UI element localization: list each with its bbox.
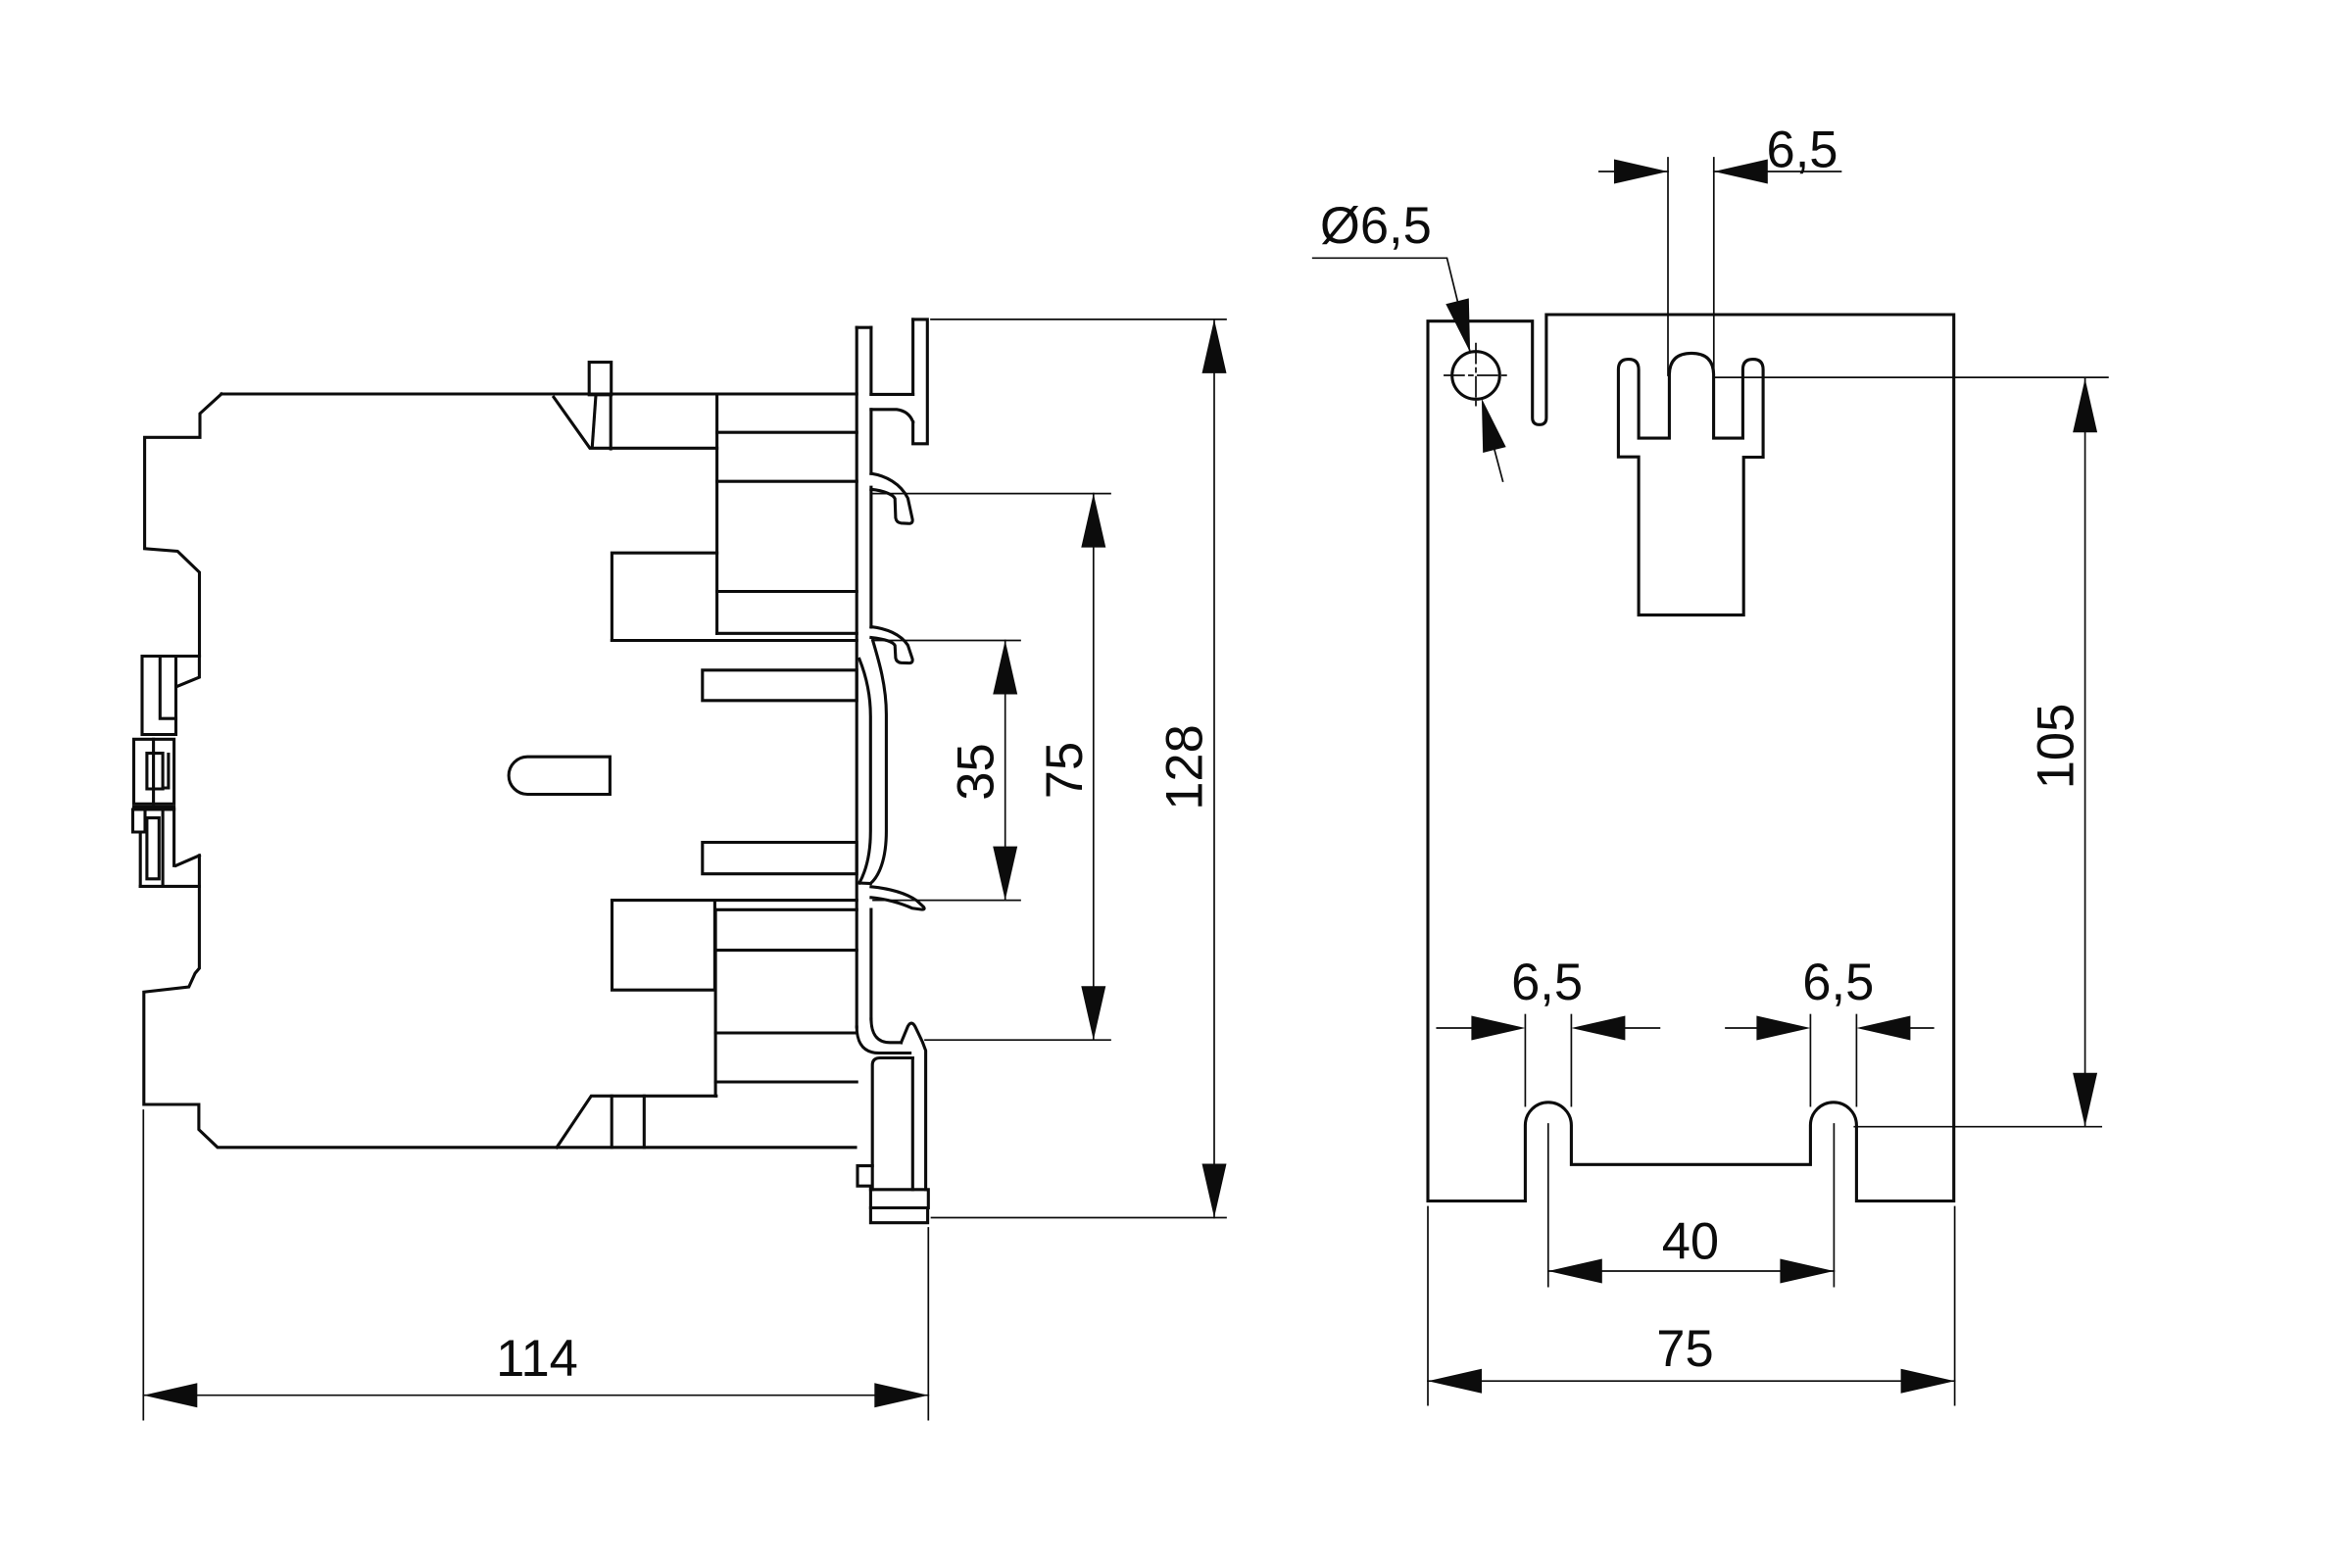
dim 128 arrow top [1202, 319, 1227, 373]
svg-text:Ø6,5: Ø6,5 [1320, 197, 1432, 255]
lower tab bar [703, 843, 857, 874]
upper terminal block line 2 [717, 480, 857, 483]
lower terminal block left edge [714, 909, 717, 1096]
DIN clip mid block inner vertical [163, 755, 169, 788]
dim 6,5 top arrow left [1614, 160, 1668, 184]
screw head [589, 363, 612, 395]
dim 75b extension right [1954, 1207, 1956, 1405]
hole leader arrow upper [1445, 298, 1470, 352]
dim 6,5 bottom-left arrow a [1471, 1016, 1525, 1041]
dim 6,5 bottom-right arrow b [1856, 1016, 1910, 1041]
lower terminal block line 2 [715, 1031, 857, 1034]
hole centerline vertical [1475, 344, 1477, 408]
dim 6,5 bottom-right extension b [1855, 1015, 1857, 1106]
dim 114 extension left [142, 1110, 144, 1420]
dim 128 extension top [931, 318, 1226, 320]
dim 6,5 top leader right [1714, 171, 1841, 172]
dim 128 line [1213, 319, 1215, 1218]
crown cutout [1618, 353, 1763, 614]
dim 6,5 top extension right [1713, 158, 1715, 438]
dim 35 extension bottom [873, 900, 1020, 902]
body top edge [221, 392, 857, 395]
foot block top [872, 1058, 912, 1190]
dim 105 arrow top [2073, 378, 2097, 432]
dim 114 arrow right [874, 1383, 928, 1407]
foot flange [870, 1190, 928, 1208]
bottom recess rib 2 [643, 1096, 646, 1148]
dim 75b line [1428, 1380, 1955, 1382]
dim 128 extension bottom [932, 1217, 1227, 1219]
dim 75 line [1093, 494, 1095, 1041]
dim 35 line [1004, 641, 1006, 901]
upper left block [612, 553, 716, 640]
leaf spring outer curve [870, 641, 886, 884]
dim 40 extension left [1547, 1124, 1549, 1287]
lower terminal block line 3 [715, 1080, 857, 1083]
body left outline upper [145, 394, 221, 657]
actuator pin [509, 757, 610, 794]
upper terminal block line 3 [717, 590, 857, 593]
dim 114 line [143, 1395, 928, 1396]
dim 75b extension left [1427, 1207, 1429, 1405]
svg-text:75: 75 [1036, 742, 1094, 799]
dim 6,5 bottom-right leader b [1909, 1027, 1933, 1029]
DIN clip low wedge [176, 856, 200, 865]
dim 75b arrow right [1901, 1369, 1955, 1394]
dim 114 extension right [927, 1228, 929, 1420]
dim 105 arrow bottom [2073, 1073, 2097, 1127]
dim 6,5 bottom-right extension a [1809, 1015, 1811, 1106]
lower terminal block top [715, 908, 857, 911]
mounting plate outline [1428, 315, 1954, 1201]
dim 6,5 bottom-left arrow b [1571, 1016, 1625, 1041]
dim 6,5 top extension left [1667, 158, 1669, 375]
dim 6,5 bottom-left extension b [1570, 1015, 1572, 1106]
DIN clip mid block vertical [152, 739, 155, 804]
body ledge below upper block [612, 639, 857, 642]
DIN clip tab upper inner vertical [160, 657, 175, 719]
bottom recess rib 1 [611, 1096, 613, 1148]
dim 128 arrow bottom [1202, 1164, 1227, 1218]
dim 40 extension right [1833, 1124, 1835, 1287]
lower left block [612, 901, 715, 991]
dim 6,5 bottom-left extension a [1524, 1015, 1526, 1106]
DIN clip low small rect right [140, 809, 145, 832]
svg-text:40: 40 [1662, 1212, 1719, 1270]
svg-text:6,5: 6,5 [1767, 122, 1838, 179]
foot block inner vertical [911, 1058, 914, 1190]
leaf spring bottom joint [859, 881, 870, 885]
foot inner bend [871, 1019, 902, 1043]
hole leader tail [1494, 450, 1503, 481]
lower left block top edge [612, 899, 857, 902]
svg-text:75: 75 [1656, 1320, 1713, 1378]
dim 6,5 bottom-right arrow a [1756, 1016, 1810, 1041]
DIN clip tab upper wedge [176, 657, 199, 687]
screw funnel slant [554, 397, 589, 447]
mounting plate right edge a [869, 327, 872, 394]
DIN clip mid block inner rect [147, 754, 163, 789]
upper terminal block line 1 [717, 431, 857, 434]
hole leader line [1313, 258, 1470, 352]
dim 105 extension top [1714, 376, 2108, 378]
dim 75 extension top [873, 493, 1110, 495]
upper terminal block left edge [715, 394, 718, 633]
rail hook top bar [913, 319, 928, 444]
dim 6,5 bottom-left leader b [1624, 1027, 1659, 1029]
dim 40 arrow left [1548, 1259, 1602, 1284]
svg-text:105: 105 [2027, 704, 2084, 790]
DIN clip low small rect [133, 809, 141, 886]
dim 6,5 bottom-right leader a [1726, 1027, 1757, 1029]
screw shaft line [592, 397, 596, 447]
dim 105 extension bottom [1854, 1126, 2101, 1128]
hole centerline horizontal [1445, 374, 1509, 376]
svg-text:6,5: 6,5 [1802, 954, 1874, 1011]
dim 40 line [1548, 1270, 1835, 1272]
dim 6,5 top arrow right [1714, 160, 1768, 184]
dim 35 extension top [873, 640, 1020, 642]
dim 75 extension bottom [925, 1039, 1110, 1041]
lower rail claw [871, 887, 924, 909]
mounting plate right edge c [869, 487, 872, 627]
foot claw and right edge [902, 1023, 926, 1190]
foot block left notch [857, 1166, 872, 1190]
upper terminal block bottom [717, 632, 857, 635]
foot bottom slab [870, 1208, 927, 1223]
bottom recess chamfer [557, 1096, 716, 1148]
svg-text:6,5: 6,5 [1511, 954, 1583, 1011]
dim 6,5 bottom-left leader a [1437, 1027, 1472, 1029]
DIN clip low bottom [140, 885, 199, 888]
mounting plate left edge [856, 327, 858, 1027]
DIN clip mid double line [134, 806, 174, 808]
middle rail claw [871, 627, 912, 663]
body left outline lower [144, 856, 856, 1148]
upper tab bar [703, 670, 857, 701]
screw funnel bottom line [591, 447, 717, 450]
DIN clip low inner vertical [162, 809, 165, 886]
svg-text:114: 114 [496, 1330, 578, 1388]
mounting plate top [857, 326, 871, 329]
dim 75b arrow left [1428, 1369, 1482, 1394]
mounting hole [1452, 352, 1500, 400]
dim 35 arrow bottom [993, 847, 1017, 901]
leaf spring inner curve [859, 659, 870, 883]
screw funnel right edge [610, 395, 612, 449]
dim 105 line [2084, 378, 2086, 1126]
mounting plate right edge f [869, 909, 872, 1019]
dim 75 arrow top [1081, 494, 1105, 548]
DIN clip mid block outer [134, 739, 174, 804]
upper rail claw [871, 473, 912, 523]
hole leader arrow lower [1482, 399, 1506, 453]
dim 40 arrow right [1780, 1259, 1834, 1284]
svg-text:128: 128 [1156, 724, 1214, 810]
DIN clip tab upper outline [142, 657, 200, 735]
dim 114 arrow left [143, 1383, 197, 1407]
DIN clip low right edge [172, 809, 175, 865]
dim 75 arrow bottom [1081, 986, 1105, 1040]
rail hook connector top [871, 393, 913, 396]
DIN clip low block top [133, 808, 174, 810]
rail hook bar left upper [911, 319, 914, 395]
dim 6,5 top leader left [1599, 171, 1668, 172]
mounting plate right edge b [869, 410, 872, 473]
foot outer bend [857, 1027, 909, 1053]
DIN clip low inner rect [147, 818, 159, 879]
dim 35 arrow top [993, 641, 1017, 695]
lower terminal block line 1 [715, 949, 857, 952]
svg-text:35: 35 [948, 743, 1005, 800]
rail hook connector bottom [871, 410, 913, 422]
